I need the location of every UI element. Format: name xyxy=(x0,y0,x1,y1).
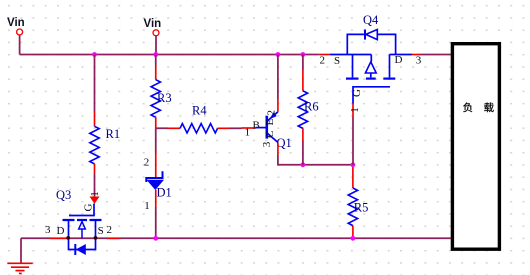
svg-text:S: S xyxy=(98,225,104,237)
svg-text:D: D xyxy=(395,54,403,66)
diode D1 (zener) xyxy=(144,152,172,212)
svg-text:R1: R1 xyxy=(106,127,121,141)
svg-text:Vin: Vin xyxy=(144,18,162,30)
resistor R6 xyxy=(298,70,318,141)
Q3 body diode xyxy=(76,244,86,255)
transistor Q1 xyxy=(242,99,292,156)
Q4 right drop and bar xyxy=(389,55,391,78)
wire Vin2 drop xyxy=(155,36,157,55)
Q3 source dot xyxy=(94,236,98,240)
svg-text:2: 2 xyxy=(144,156,150,168)
wire R6 to node xyxy=(302,141,304,165)
ground riser xyxy=(20,238,22,262)
Q4 S pin xyxy=(319,54,330,56)
svg-text:D: D xyxy=(57,225,65,237)
Q4 gate pin xyxy=(352,104,354,118)
svg-text:C: C xyxy=(264,131,276,138)
Q4 gate bar xyxy=(353,87,390,104)
resistor R4 xyxy=(168,104,230,134)
svg-text:1: 1 xyxy=(144,200,150,212)
wire R4 to Q1 base xyxy=(230,127,242,129)
Q3 source drop xyxy=(95,221,97,238)
svg-text:G: G xyxy=(351,89,363,97)
wire Vin1 to top rail xyxy=(19,35,21,55)
svg-text:Q3: Q3 xyxy=(56,188,71,202)
Q3 pin leads red xyxy=(50,237,120,239)
Q3 substrate arrow xyxy=(79,222,86,239)
Q1 emitter xyxy=(267,112,278,122)
load box xyxy=(452,44,499,250)
junction at Q1 emitter top xyxy=(276,52,281,57)
svg-text:3: 3 xyxy=(416,55,422,67)
wire Q1 collector down and right xyxy=(278,156,353,165)
svg-text:2: 2 xyxy=(320,55,326,67)
Q4 D pin xyxy=(412,54,420,56)
junction at R3 top xyxy=(153,52,158,57)
resistor R1 xyxy=(90,112,120,174)
port Vin (middle) xyxy=(144,18,162,36)
svg-text:Vin: Vin xyxy=(7,17,25,29)
load label 负 xyxy=(463,102,472,112)
junction R5 bottom xyxy=(351,236,356,241)
Q4 blue rail right xyxy=(390,54,413,56)
wire top rail xyxy=(20,54,319,56)
wire Q1 emitter to rail xyxy=(277,55,279,100)
wire R3 upper xyxy=(155,55,157,66)
wire Q4 drain to load xyxy=(420,54,451,56)
wire R6 upper xyxy=(302,55,304,71)
svg-text:R5: R5 xyxy=(354,201,369,215)
wire D1 to bottom rail xyxy=(155,207,157,238)
Q3 drain drop xyxy=(68,221,70,238)
Q1 base bar xyxy=(265,116,268,139)
Q1 collector pin xyxy=(277,142,279,155)
Q4 top body diode branch xyxy=(347,34,395,54)
Q1 collector xyxy=(267,133,278,143)
svg-text:2: 2 xyxy=(266,110,278,116)
svg-text:1: 1 xyxy=(245,127,251,139)
Q3 contact bars xyxy=(63,219,102,221)
svg-text:R4: R4 xyxy=(192,104,207,118)
Q4 left drop and bar xyxy=(352,55,354,78)
wire R1 upper xyxy=(94,55,96,113)
wire R1 to Q3 gate xyxy=(94,174,96,197)
svg-text:2: 2 xyxy=(107,224,113,236)
svg-text:R6: R6 xyxy=(304,100,319,114)
Q3 gate lead xyxy=(69,204,94,216)
resistor R3 xyxy=(151,65,172,128)
svg-text:G: G xyxy=(82,203,94,211)
Q1 emitter pin xyxy=(277,99,279,112)
svg-text:Q4: Q4 xyxy=(363,13,379,27)
svg-text:B: B xyxy=(253,120,260,132)
junction at R6 top xyxy=(301,52,306,57)
ground symbol xyxy=(7,263,32,273)
Q4 blue rail left xyxy=(330,54,371,56)
wire Q4 gate down xyxy=(352,117,354,165)
wire bottom rail xyxy=(21,237,451,239)
Q3 drain dot xyxy=(66,236,70,240)
load label 载 xyxy=(484,102,494,112)
svg-text:3: 3 xyxy=(261,141,273,147)
junction at R1 top xyxy=(92,52,97,57)
svg-text:3: 3 xyxy=(45,224,51,236)
Q4 substrate xyxy=(370,55,372,62)
svg-text:Q1: Q1 xyxy=(277,136,292,150)
transistor Q4 xyxy=(319,13,422,117)
junction R6 bottom xyxy=(301,162,306,167)
svg-text:D1: D1 xyxy=(157,186,172,200)
port Vin (left) xyxy=(7,17,25,35)
Q3 body diode loop xyxy=(69,238,96,249)
svg-text:1: 1 xyxy=(349,107,361,113)
node corner R3/R4/D1 xyxy=(156,128,168,152)
transistor Q3 xyxy=(45,188,120,255)
svg-text:R3: R3 xyxy=(157,91,172,105)
svg-text:S: S xyxy=(334,55,340,67)
wire-end arrow at Q3 gate xyxy=(90,197,100,204)
resistor R5 xyxy=(348,167,368,238)
svg-text:E: E xyxy=(264,119,276,126)
svg-text:1: 1 xyxy=(89,191,101,197)
junction D1 bottom xyxy=(153,236,158,241)
junction R5 top xyxy=(351,162,356,167)
